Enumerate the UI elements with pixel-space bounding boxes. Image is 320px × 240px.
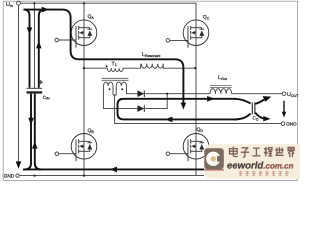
transformer T1 secondary winding right half [116,82,126,86]
T1 secondary dot right [121,88,123,90]
svg-text:UIn: UIn [6,2,13,8]
svg-text:eeworld.com.cn: eeworld.com.cn [227,160,294,171]
bold curved arrow C_out to U_OUT [255,99,264,103]
wire D2 cathode up to junction [145,94,167,109]
junction node primary right [194,67,196,69]
watermark slogan [239,171,289,176]
transformer T1 core [102,78,129,80]
arrow up on cap out-branch [36,41,42,48]
T1 primary polarity dot [106,65,108,67]
gate terminal Q_C [166,39,170,43]
node U_OUT terminal [282,92,286,96]
wire output to U_OUT [167,93,210,95]
svg-text:QD: QD [197,127,204,133]
bold current loop secondary stadium [118,99,251,120]
wire bold cap out-branch and rail to Q_A bypass down to transformer and right leg [39,10,184,103]
wire right bridge leg [195,20,197,176]
watermark logo [204,148,224,169]
svg-text:GND: GND [4,174,15,179]
wire bold bottom rail [23,168,204,170]
arrow left on bottom rail [110,167,117,173]
wire bold cap in-branch [24,10,30,88]
junction node bottom left leg [83,175,85,177]
wire bold pinch to C_out bottom [234,114,251,120]
junction node bottom cap [34,175,36,177]
arrow right on bold top rail [42,7,49,13]
wire bold below cap left [23,94,31,170]
wire primary to step [123,64,141,68]
wire left bridge leg [83,3,85,175]
wire gate lead Q_B [59,153,76,155]
wire C_IN top feed [33,3,35,88]
arrow down below cap left [28,118,34,125]
wire secondary center tap return to GND [113,86,281,124]
bold current loop primary [23,10,204,170]
wire primary from left leg [84,67,107,69]
transformer T1 primary winding [107,68,123,71]
arrow output voltage U_OUT to GND [283,101,285,112]
wire L_out to U_OUT terminal [232,93,283,95]
node GND right terminal [281,122,285,126]
watermark banner [204,144,300,178]
gate terminal Q_B [55,152,59,156]
svg-text:CIN: CIN [43,95,50,101]
inductor L_out core [210,85,232,87]
diode D2 [137,105,144,112]
svg-text:QC: QC [203,15,210,21]
arrow down on cap in-branch [27,27,33,34]
watermark title [230,147,295,158]
wire bold below cap right [35,94,41,170]
inductor L_out winding [210,89,232,94]
svg-text:T1: T1 [112,61,117,67]
wire gate lead Q_D [170,153,188,155]
arrow left on stadium bottom [165,117,173,123]
gate terminal Q_D [166,152,170,156]
wire top rail U_IN to right leg [20,3,196,20]
capacitor C_IN [27,80,51,101]
arrow down on U_IN feed [16,161,22,168]
junction node diode output [166,93,168,95]
bold curved arrow C_out to GND [255,113,264,119]
MOSFET Q_B [71,134,97,162]
svg-text:LOut: LOut [218,75,227,81]
wire D2 anode from secondary bottom end [103,86,137,109]
svg-text:QB: QB [88,128,95,134]
node U_IN terminal [17,1,21,5]
wire U_IN feed down left side [18,5,20,162]
diode D1 [137,90,144,97]
wire D1 cathode to junction [145,93,167,95]
wire L_res to right leg [163,64,196,68]
wire gate lead Q_C [170,39,188,41]
arrow up below cap right [32,141,38,148]
junction node top cap feed [33,2,35,4]
svg-text:QA: QA [88,14,95,20]
inductor L_resonant [141,64,163,68]
MOSFET Q_C [183,20,209,48]
wire D1 anode from secondary top end [127,86,138,94]
junction node top left leg [83,2,85,4]
MOSFET Q_D [183,134,209,162]
svg-text:LResonant: LResonant [142,52,160,58]
transformer T1 secondary winding left half [104,82,114,86]
svg-text:GND: GND [286,121,297,126]
wire gate lead Q_A [59,39,76,41]
gate terminal Q_A [55,38,59,42]
MOSFET Q_A [71,20,97,48]
arrow right on stadium top [207,96,215,102]
wire bold pinch to C_out top [234,99,251,104]
capacitor C_out plates [252,102,255,114]
junction node primary left [83,67,85,69]
wire bottom GND rail [19,175,204,177]
T1 secondary dot left [109,88,111,90]
svg-text:UOUT: UOUT [287,92,299,98]
node GND left terminal [16,174,19,177]
border frame [3,1,297,180]
arrow down on right leg bold [181,103,187,110]
wire bold top rail [23,9,45,11]
